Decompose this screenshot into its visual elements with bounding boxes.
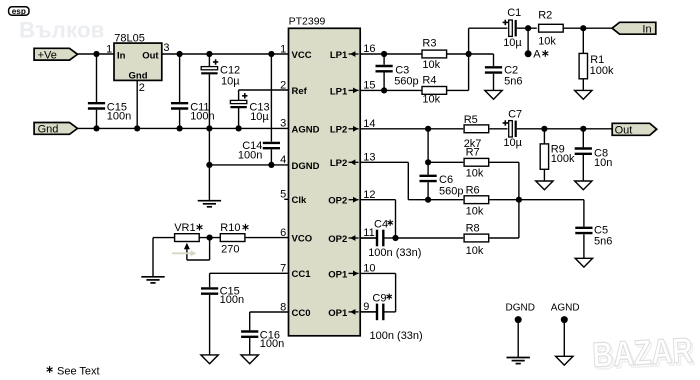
pin number 4 xyxy=(280,154,286,166)
svg-text:OP1: OP1 xyxy=(328,308,348,319)
node A junction xyxy=(525,25,531,31)
svg-text:+Ve: +Ve xyxy=(38,49,57,61)
svg-text:VCO: VCO xyxy=(292,234,313,245)
wire R7 right riser xyxy=(490,162,519,238)
svg-text:10k: 10k xyxy=(538,36,556,48)
svg-text:10k: 10k xyxy=(422,59,440,71)
wire wiper xyxy=(187,238,210,260)
wire R2 to In xyxy=(563,27,612,29)
resistor R3 xyxy=(422,37,447,71)
svg-text:100n (33n): 100n (33n) xyxy=(368,247,421,259)
wire C4 to R8 xyxy=(396,237,464,239)
svg-text:R6: R6 xyxy=(466,184,480,196)
svg-text:In: In xyxy=(117,51,126,62)
wire riser to C1 xyxy=(469,28,508,90)
wire R3 right xyxy=(447,53,469,55)
svg-text:100k: 100k xyxy=(590,65,614,77)
resistor R7 xyxy=(428,146,489,179)
svg-text:10µ: 10µ xyxy=(503,137,522,149)
capacitor C7 xyxy=(503,109,523,149)
wire C6 column xyxy=(427,129,429,175)
svg-text:R3: R3 xyxy=(422,37,436,49)
svg-text:CC0: CC0 xyxy=(292,308,311,319)
pin LP2 in xyxy=(330,158,359,169)
pin number 2 xyxy=(280,79,286,91)
svg-text:5n6: 5n6 xyxy=(504,76,522,88)
capacitor C14 xyxy=(238,140,280,165)
svg-text:100n: 100n xyxy=(260,338,284,350)
svg-text:Clk: Clk xyxy=(292,195,308,206)
ground R1 xyxy=(575,90,592,99)
pin AGND xyxy=(292,124,320,135)
ground VR1 xyxy=(141,277,164,283)
node C3 top xyxy=(381,51,387,57)
pin OP2 out xyxy=(328,196,358,207)
svg-text:100n: 100n xyxy=(220,294,244,306)
svg-text:14: 14 xyxy=(363,118,375,130)
capacitor C5 xyxy=(575,225,612,259)
svg-text:Gnd: Gnd xyxy=(129,70,148,81)
resistor R9 xyxy=(540,129,575,169)
pin number 1 xyxy=(280,43,286,55)
node feedback xyxy=(516,197,522,203)
pin number 9 xyxy=(363,301,369,313)
resistor R2 xyxy=(538,10,563,48)
capacitor C15 xyxy=(88,54,131,128)
watermark xyxy=(19,18,105,43)
wire LP1 in xyxy=(360,53,422,55)
wire OP1 out xyxy=(360,273,395,312)
potentiometer VR1 xyxy=(174,222,202,260)
svg-text:C1: C1 xyxy=(507,7,521,19)
wire Ref xyxy=(239,89,289,91)
note see text xyxy=(47,365,100,377)
capacitor C12 xyxy=(201,54,240,128)
svg-text:10k: 10k xyxy=(466,245,484,257)
svg-text:560p: 560p xyxy=(439,186,463,198)
wire Clk stub xyxy=(284,198,288,200)
svg-text:10k: 10k xyxy=(466,206,484,218)
svg-text:78L05: 78L05 xyxy=(114,33,145,45)
node Gnd/reg xyxy=(134,125,140,131)
wire R8 right xyxy=(490,237,519,239)
svg-text:LP2: LP2 xyxy=(330,158,347,169)
svg-text:LP2: LP2 xyxy=(330,125,347,136)
capacitor C2 xyxy=(485,65,523,91)
node wiper xyxy=(207,235,213,241)
pot adjust arrow xyxy=(172,250,197,256)
pin number 3 xyxy=(280,118,286,130)
esp logo xyxy=(9,7,29,16)
svg-text:270: 270 xyxy=(221,244,239,256)
svg-text:R2: R2 xyxy=(538,10,552,22)
node R1 top xyxy=(580,25,586,31)
ground DGND xyxy=(507,358,530,364)
svg-text:10µ: 10µ xyxy=(503,37,522,49)
svg-text:In: In xyxy=(642,23,651,35)
svg-text:OP1: OP1 xyxy=(328,269,348,280)
wire OP2 out xyxy=(360,200,395,238)
wire regulator out to VCC xyxy=(162,53,289,55)
node Gnd/C12 xyxy=(206,125,212,131)
svg-text:560p: 560p xyxy=(394,76,418,88)
pin Ref xyxy=(292,86,308,97)
ground R9 xyxy=(536,181,553,190)
svg-text:See Text: See Text xyxy=(57,365,100,377)
ground C15 xyxy=(201,355,218,364)
svg-text:Ref: Ref xyxy=(292,86,308,97)
wire OP1 in xyxy=(360,311,376,313)
pin number 16 xyxy=(363,43,375,55)
svg-text:LP1: LP1 xyxy=(330,86,348,97)
wire C12 to DGND row xyxy=(208,128,210,165)
wire LP2 in xyxy=(360,162,408,199)
pin number 14 xyxy=(363,118,375,130)
capacitor C9 xyxy=(360,293,423,342)
+Ve input tag xyxy=(34,48,77,61)
svg-text:13: 13 xyxy=(363,151,375,163)
svg-text:R7: R7 xyxy=(466,146,480,158)
node VCC/C14 xyxy=(268,51,274,57)
wire OP2 in xyxy=(360,237,376,239)
resistor R4 xyxy=(422,75,447,106)
wire R6 row xyxy=(408,199,463,201)
svg-text:Вълков: Вълков xyxy=(19,18,105,43)
pin OP2 in xyxy=(328,234,358,245)
regulator 78L05 xyxy=(106,33,169,94)
wire R9 to ground xyxy=(543,169,545,181)
wire C1 to R2 xyxy=(517,27,537,29)
capacitor C16 xyxy=(241,330,284,355)
svg-text:10k: 10k xyxy=(466,167,484,179)
node R9 top xyxy=(541,126,547,132)
ground C16 xyxy=(241,355,258,364)
svg-text:VR1: VR1 xyxy=(174,222,195,234)
pin number 8 xyxy=(280,301,286,313)
wire Gnd rail xyxy=(78,127,289,129)
capacitor C6 xyxy=(420,174,464,200)
node C6 bottom xyxy=(425,197,431,203)
wire LP2 out xyxy=(360,128,463,130)
node C3 bottom xyxy=(381,87,387,93)
wire CC1 xyxy=(210,273,289,287)
wire C2 branch xyxy=(469,54,494,66)
svg-text:C9: C9 xyxy=(372,293,386,305)
node R5 left xyxy=(425,126,431,132)
node Gnd/C11 xyxy=(177,125,183,131)
node R3/C2 xyxy=(466,51,472,57)
pin OP1 out xyxy=(328,269,358,280)
svg-text:R4: R4 xyxy=(422,75,436,87)
watermark bazar xyxy=(591,330,696,377)
svg-text:Out: Out xyxy=(142,51,159,62)
wire C7 to Out xyxy=(517,128,612,130)
wire R5 to C7 xyxy=(490,128,508,130)
pin number 15 xyxy=(363,80,375,92)
svg-text:100n: 100n xyxy=(107,111,131,123)
svg-text:A: A xyxy=(533,49,541,61)
svg-text:10µ: 10µ xyxy=(221,75,240,87)
ground main xyxy=(198,201,221,207)
capacitor C13 xyxy=(230,90,269,128)
pin LP1 out xyxy=(330,86,359,97)
pin number 11 xyxy=(363,227,374,239)
svg-text:3: 3 xyxy=(163,42,169,54)
svg-text:AGND: AGND xyxy=(551,303,580,314)
resistor R8 xyxy=(464,222,489,256)
svg-text:C6: C6 xyxy=(439,174,453,186)
node VCC/C11 xyxy=(177,51,183,57)
svg-text:10µ: 10µ xyxy=(250,111,269,123)
pin LP1 in xyxy=(330,50,359,61)
svg-text:R10: R10 xyxy=(220,222,240,234)
ground C2 xyxy=(485,90,502,99)
svg-text:OP2: OP2 xyxy=(328,234,347,245)
pin number 13 xyxy=(363,151,375,163)
svg-text:R5: R5 xyxy=(464,114,478,126)
pin number 7 xyxy=(280,263,286,275)
wire VR1 down xyxy=(152,238,154,277)
svg-text:100n (33n): 100n (33n) xyxy=(370,330,423,342)
svg-text:5n6: 5n6 xyxy=(594,235,612,247)
resistor R6 xyxy=(464,184,489,217)
svg-text:AGND: AGND xyxy=(292,124,320,135)
svg-text:100n: 100n xyxy=(238,149,262,161)
pin number 6 xyxy=(280,227,286,239)
capacitor C11 xyxy=(171,54,215,128)
ground AGND xyxy=(556,356,573,365)
svg-text:BAZAR: BAZAR xyxy=(591,330,693,375)
AGND terminal xyxy=(551,303,580,357)
svg-text:10k: 10k xyxy=(422,94,440,106)
svg-text:Gnd: Gnd xyxy=(38,124,59,136)
node Gnd/C13 xyxy=(236,125,242,131)
pin number 5 xyxy=(280,189,286,201)
svg-text:15: 15 xyxy=(363,80,375,92)
pin LP2 out xyxy=(330,125,359,136)
op-amp U1 PT2399 xyxy=(289,16,361,336)
Out tag xyxy=(612,123,657,136)
wire R10 to VCO xyxy=(245,237,289,239)
pin VCC xyxy=(292,50,312,61)
svg-text:DGND: DGND xyxy=(505,303,534,314)
svg-text:OP2: OP2 xyxy=(328,196,347,207)
resistor R10 xyxy=(220,222,248,255)
pin VCO xyxy=(292,234,313,245)
pin number 12 xyxy=(363,189,375,201)
node star gnd xyxy=(206,162,212,168)
Gnd input tag xyxy=(34,123,77,136)
svg-text:CC1: CC1 xyxy=(292,269,312,280)
capacitor C8 xyxy=(575,129,613,181)
resistor R1 xyxy=(579,28,614,79)
wire to C5 xyxy=(583,200,585,227)
wire +Ve to regulator xyxy=(78,53,115,55)
svg-text:R8: R8 xyxy=(466,222,480,234)
capacitor C15 lower xyxy=(201,286,244,355)
In tag xyxy=(612,22,656,35)
node C8 top xyxy=(580,126,586,132)
pin Clk xyxy=(292,195,308,206)
wire R6 right xyxy=(490,199,584,201)
svg-text:2: 2 xyxy=(139,82,145,94)
svg-text:PT2399: PT2399 xyxy=(289,16,326,28)
capacitor C4 xyxy=(360,218,421,259)
node VCC/C12 xyxy=(206,51,212,57)
svg-text:VCC: VCC xyxy=(292,50,312,61)
wire VCC to C14 xyxy=(270,54,272,142)
pin CC0 xyxy=(292,308,311,319)
wire to main ground xyxy=(208,165,210,201)
node Gnd/C15 xyxy=(93,125,99,131)
ground C8 xyxy=(575,181,592,190)
DGND terminal xyxy=(505,303,534,358)
svg-text:C4: C4 xyxy=(374,218,388,230)
pin CC1 xyxy=(292,269,312,280)
capacitor C3 xyxy=(376,54,419,90)
node A stub xyxy=(525,28,549,60)
svg-text:LP1: LP1 xyxy=(330,50,348,61)
pin DGND xyxy=(292,161,320,172)
node R7 left xyxy=(425,159,431,165)
svg-text:esp: esp xyxy=(12,7,26,16)
svg-text:100n: 100n xyxy=(190,111,214,123)
node +Ve/C15 xyxy=(93,51,99,57)
wire VR1 left xyxy=(153,237,174,239)
node C4 out xyxy=(392,235,398,241)
pin number 10 xyxy=(363,263,375,275)
wire VR1 to R10 xyxy=(200,237,221,239)
svg-text:DGND: DGND xyxy=(292,161,320,172)
svg-text:10n: 10n xyxy=(594,157,612,169)
wire regulator gnd xyxy=(136,80,138,128)
svg-text:Out: Out xyxy=(615,124,633,136)
ground C5 xyxy=(575,258,592,267)
svg-text:C7: C7 xyxy=(508,109,522,121)
wire LP1 out xyxy=(360,89,422,91)
wire CC0 xyxy=(250,312,289,330)
svg-text:100k: 100k xyxy=(551,153,575,165)
resistor R5 xyxy=(464,114,489,150)
wire R4 right xyxy=(447,89,469,91)
capacitor C1 xyxy=(503,7,523,49)
pin OP1 in xyxy=(328,308,358,319)
node C14/DGND xyxy=(268,162,274,168)
wire DGND row xyxy=(209,164,288,166)
wire R1 to ground xyxy=(582,79,584,90)
